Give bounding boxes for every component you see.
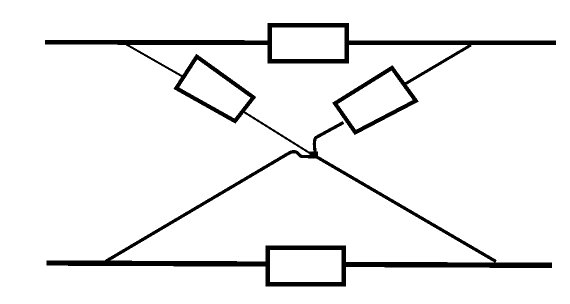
resistor box R3 (upper-right diagonal element, tilted)	[335, 68, 416, 132]
resistor box R1 (top series element)	[270, 25, 347, 61]
wire: top rail (node A to node B)	[45, 40, 556, 45]
wire: diagonal from centre junction down to bottom-right tap	[312, 154, 496, 261]
wire: jog from upper-right box down to centre junction	[314, 123, 343, 153]
wire: diagonal from top-right tap down to upper-right box	[400, 45, 471, 87]
resistor box R2 (upper-left diagonal element, tilted)	[176, 57, 253, 122]
wire: diagonal from bottom-left tap rising to centre, with hop/hump before junction	[106, 152, 312, 262]
wire: diagonal from top-left tap through series element to centre junction (thin)	[127, 45, 312, 155]
wire: bottom rail (node C to node D)	[47, 263, 553, 265]
resistor box R4 (bottom series element)	[268, 248, 344, 285]
junction blob at centre crossing	[310, 152, 319, 159]
